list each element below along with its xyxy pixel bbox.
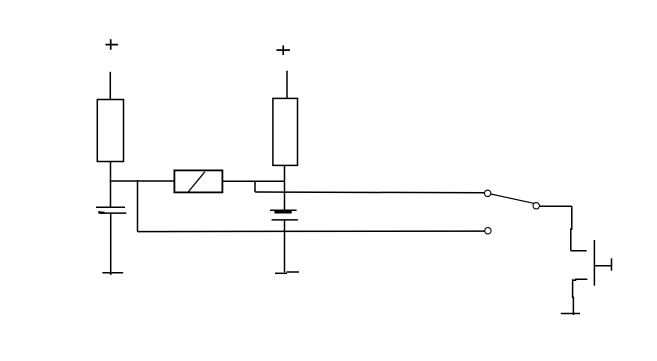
relay/fuse box F1	[174, 170, 222, 192]
switch lower contact	[485, 228, 491, 234]
capacitor C2 bottom plate	[272, 219, 298, 221]
wire upper long run to switch	[255, 191, 487, 194]
transistor Q1 channel bar	[593, 240, 595, 286]
switch common contact	[533, 203, 539, 209]
wire lower long run to switch	[138, 230, 490, 233]
power + right	[276, 45, 290, 55]
wire switch common to right	[539, 205, 571, 207]
power + left	[105, 39, 118, 50]
wire drain stub	[571, 250, 587, 252]
transistor Q1 gate lead	[594, 265, 611, 267]
wire right supply to R2	[286, 71, 288, 99]
switch SW1 pole upper contact	[484, 190, 490, 196]
capacitor C2 top plate	[270, 210, 297, 212]
resistor R1	[97, 100, 123, 162]
transistor Q1 gate terminal bar	[611, 258, 613, 270]
wire left supply to R1	[109, 72, 111, 99]
ground right	[275, 272, 299, 273]
ground left	[102, 272, 123, 274]
capacitor C1 top plate	[96, 206, 125, 208]
wire junction drop at x=137.5	[137, 180, 139, 232]
wire down from switch	[571, 206, 572, 251]
wire source stub	[573, 279, 588, 280]
capacitor C1 bottom plate	[98, 211, 126, 214]
wire R2 bottom to C2	[284, 165, 286, 210]
wire R1 bottom to node	[110, 162, 112, 208]
wire source down to ground	[572, 279, 575, 315]
wire C2 to ground	[284, 220, 286, 272]
wire box to right node	[222, 180, 284, 182]
switch arm	[491, 194, 535, 203]
resistor R2	[273, 98, 298, 165]
wire node A horizontal to box	[110, 180, 175, 182]
wire C1 to ground	[110, 214, 112, 276]
ground bottom right	[561, 313, 580, 315]
wire step down to switch line	[254, 181, 256, 192]
